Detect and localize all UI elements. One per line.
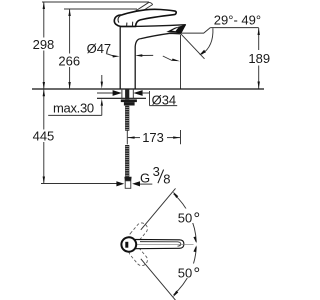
reference line 298 top: [42, 1, 149, 3]
arc arrowheads: [173, 192, 178, 199]
deck counter top line: [32, 88, 264, 90]
diameter 34 arrows: [97, 90, 177, 106]
arrow right pointing at body: [141, 54, 153, 56]
leader from shelf to spout tip: [182, 28, 211, 33]
white gaps for 50 labels: [177, 209, 204, 224]
lever raised phantom lines: [125, 2, 153, 20]
svg-text:50: 50: [178, 210, 192, 225]
G3/8 arrows: [116, 181, 124, 186]
max 30 annotation: [48, 75, 103, 115]
svg-text:Ø34: Ø34: [152, 92, 177, 107]
spout top edge: [120, 25, 186, 27]
aerator dark tip: [166, 25, 186, 34]
leader and arrow left pointing at body: [106, 54, 113, 56]
aerator projection line: [180, 35, 182, 89]
svg-text:266: 266: [58, 53, 80, 68]
top view radial -50: [141, 259, 176, 300]
svg-text:298: 298: [33, 37, 55, 52]
dimension 266 line: [68, 9, 70, 89]
mounting nut: [124, 102, 135, 105]
top view ghost lever up (dashed): [127, 221, 150, 245]
stream diagonal line: [181, 34, 205, 59]
svg-text:G: G: [140, 171, 150, 186]
top view lever arm: [134, 239, 184, 248]
svg-text:189: 189: [248, 51, 270, 66]
hole edges in counter: [121, 89, 123, 98]
dimension 445 line: [43, 89, 45, 184]
top view lever inner detail: [140, 242, 181, 247]
lever inner detail: [118, 15, 121, 22]
top view centerline: [122, 243, 194, 245]
dimension 189 line: [258, 28, 260, 89]
hose end nut G3/8: [125, 181, 131, 189]
svg-text:173: 173: [142, 130, 164, 145]
mounting washer: [121, 99, 137, 102]
hose fitting cap: [124, 177, 131, 181]
top view arc upper: [174, 194, 197, 242]
threaded rod upper: [125, 106, 129, 131]
top view knuckle: [121, 237, 136, 251]
angle arc 29-49: [202, 28, 213, 54]
svg-text:8: 8: [163, 172, 170, 187]
shank through counter: [125, 89, 129, 99]
dimension 173: [127, 131, 180, 145]
shelf line under 29-49: [210, 27, 258, 29]
knuckle tick: [125, 242, 128, 248]
slant arrow at projection line: [163, 56, 172, 61]
lever stem: [127, 22, 133, 27]
svg-text:29°- 49°: 29°- 49°: [214, 13, 261, 28]
deck counter bottom line: [97, 97, 146, 99]
body top line: [120, 26, 135, 28]
svg-text:445: 445: [33, 129, 55, 144]
reference line 445 bottom: [41, 183, 117, 185]
top view arc lower: [174, 247, 197, 295]
threaded rod lower: [125, 145, 129, 177]
svg-text:3: 3: [153, 164, 160, 179]
lever handle: [114, 9, 176, 26]
svg-text:50: 50: [178, 265, 192, 280]
top view ghost lever down (dashed): [127, 244, 150, 268]
faucet body: [120, 27, 181, 89]
dimension 298 line: [43, 2, 45, 89]
reference line 266 top: [64, 8, 137, 10]
top view radial +50: [141, 188, 176, 229]
svg-text:max.30: max.30: [53, 101, 94, 116]
